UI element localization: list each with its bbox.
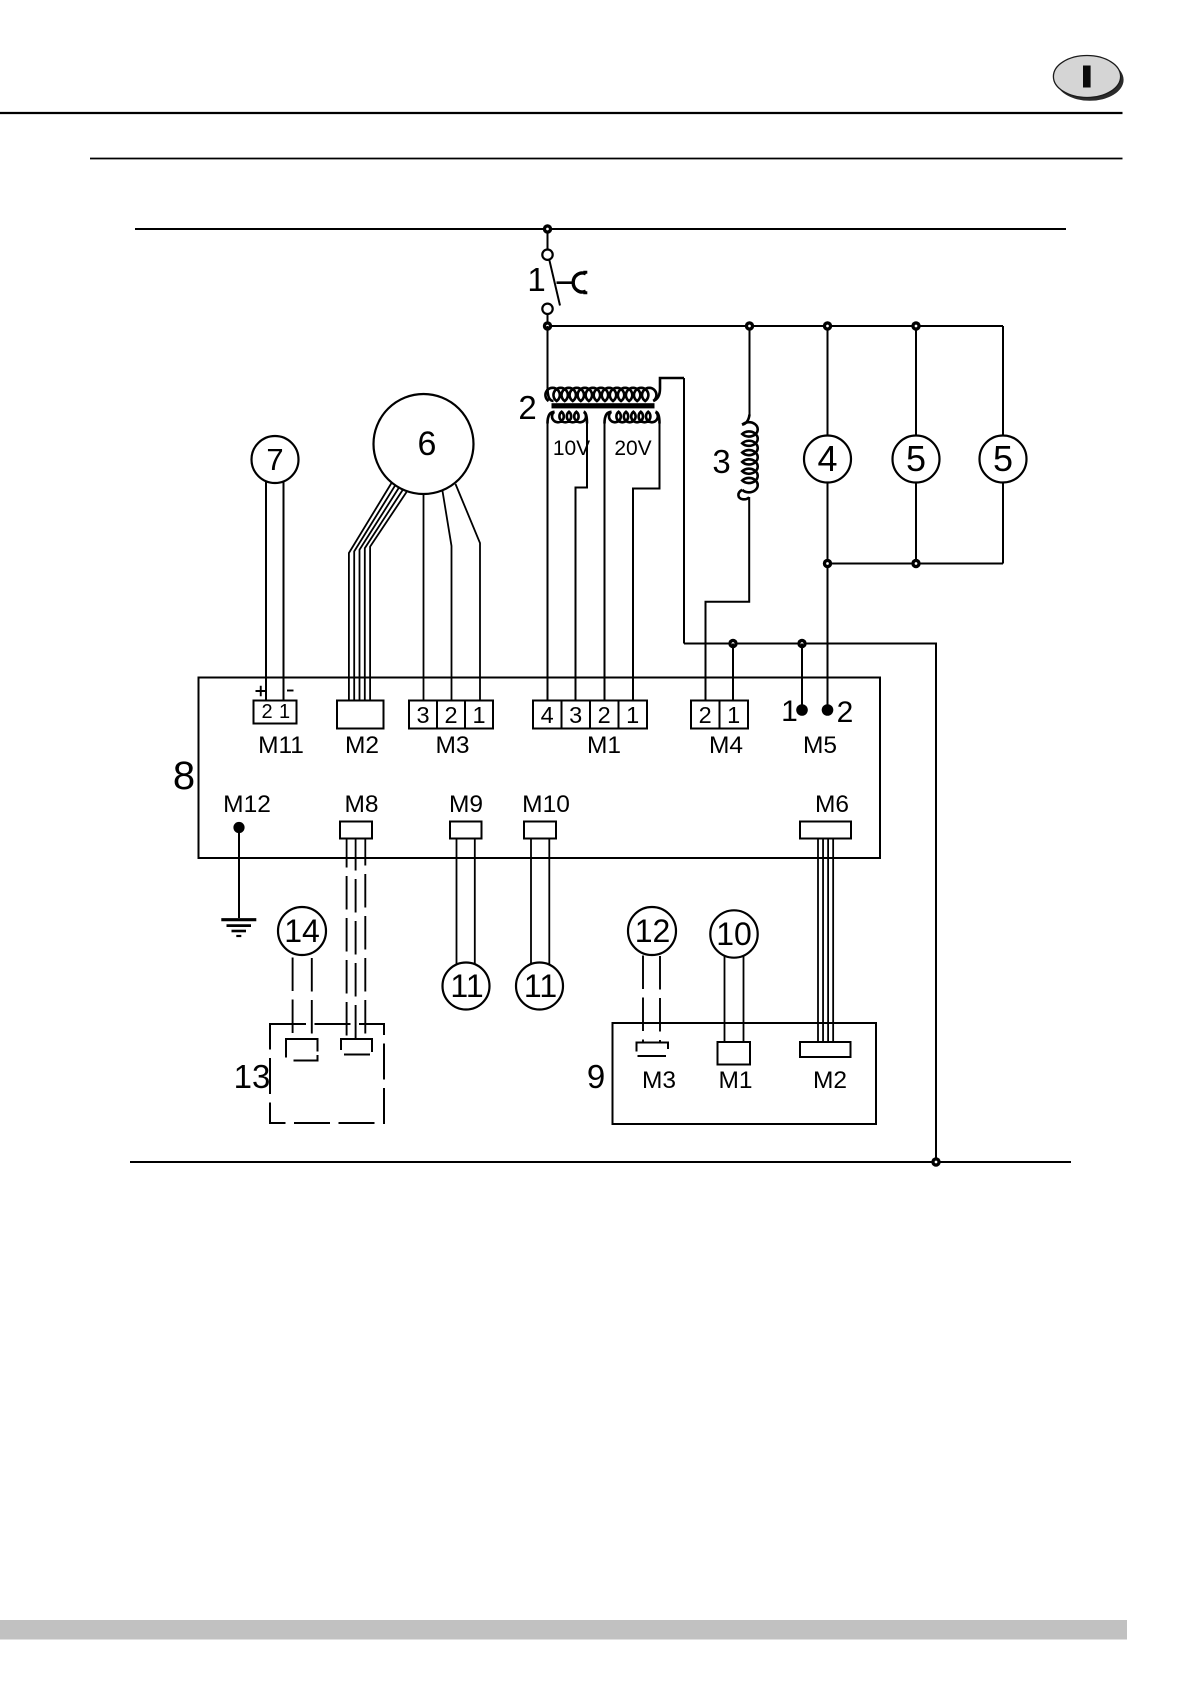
label 1 (switch) [527,263,545,296]
fast-on M5 pin2 [822,704,834,716]
pin 3 (M3) [416,704,429,728]
control board 8 [199,678,881,859]
lamp 5 (first) [893,436,940,483]
connector (box 13 right) [341,1039,372,1055]
node rail-lamp4 [823,321,832,330]
wire: coil 3 to M4 pin2 [706,497,750,701]
wire: motor 6 to M3 pin1 [456,484,481,701]
label M2 [345,734,379,759]
label 2 (transformer) [518,391,536,424]
pin 2 (M1) [598,704,611,728]
node rail-switch bottom [543,321,552,330]
device 10 [710,910,757,957]
label M5 [803,734,837,759]
wire: motor 6 to M3 pin2 [442,488,452,701]
footer gray bar [0,1620,1127,1640]
label 8 (board) [173,756,195,796]
connector M8 [340,822,372,839]
header rule top [0,112,1123,114]
node link-M4 [728,639,737,648]
terminal M4 pins 2 1 [691,701,748,729]
switch 1 (main on/off switch) [542,229,587,326]
wire: lamp4 to bottom bus [827,481,829,564]
connector M9 [450,822,482,839]
label 6 (motor) [418,427,437,461]
pin 1 (M1) [626,704,639,728]
wires: M9 to pump 11 [457,839,475,967]
label 5 (first lamp) [906,441,926,477]
accessory box 13 (dashed) [270,1024,384,1123]
wires: accessory 14 leads (dashed) [293,958,312,1040]
node link-N [931,1157,940,1166]
label 3 (coil) [712,445,730,478]
wire: secondary 20V left to M1 pin2 [604,423,606,701]
wire: rail to coil 3 [749,326,751,416]
pin 4 (M1) [541,704,554,728]
node link-M5 [797,639,806,648]
pin label 1 (M5) [781,697,798,727]
wire: switch to transformer primary [547,326,549,389]
pin label 2 (M5) [837,698,854,728]
wire: switched rail [548,325,1004,327]
node bus-lamp4 [823,559,832,568]
wires: M8 leads (dashed below board) [347,839,366,1040]
wire: bottom neutral rail [130,1161,1071,1163]
terminal M3 pins 3 2 1 [409,701,493,729]
label M2 (panel) [813,1069,847,1094]
pin 1 (M3) [472,704,485,728]
wire: motor 6 to M3 pin3 [423,490,425,701]
wire: M12 to earth [238,828,240,919]
value label 10V [553,438,590,459]
node rail-switch top [543,224,552,233]
label 11 (second pump) [524,970,557,1002]
label M3 (panel) [642,1069,676,1094]
wire: secondary 20V right to M1 pin1 [633,423,660,701]
control panel 9 [613,1023,877,1124]
label M9 [449,793,483,818]
connector M2 (panel 9) [800,1042,851,1057]
label M12 [223,793,271,818]
label 9 (control panel) [587,1060,605,1093]
wire: secondary 10V right to M1 pin3 [576,423,588,701]
label 5 (second lamp) [993,441,1013,477]
label M10 [522,793,570,818]
label 4 (lamp) [817,441,837,477]
sensor 7 [252,436,299,483]
label 10 (device) [716,918,752,950]
wire: device 7 to M11 pin1 [283,470,285,701]
wire: rail to lamp5a [915,326,917,437]
pin 2 (M11) [261,702,272,722]
accessory 14 [278,907,326,955]
pump 11 (first) [443,963,490,1010]
wire: secondary 10V left to M1 pin4 [547,423,549,701]
pin 2 (M3) [444,704,457,728]
label M1 (panel) [718,1069,752,1094]
wires: device 10 leads [725,934,744,1042]
section badge ellipse with I [1053,56,1123,101]
header rule second [90,158,1123,160]
label 12 (sensor) [635,915,671,947]
pump 11 (second) [516,963,563,1010]
fast-on M5 pin1 [796,704,808,716]
terminal M11 [254,701,297,724]
wires: sensor 12 leads (dashed) [643,956,660,1043]
connector M1 (panel 9) [718,1042,751,1065]
polarity - [287,690,294,692]
lamp 4 [804,436,851,483]
transformer 2 [545,378,684,424]
wire: primary return down right side [683,378,685,644]
label 7 (sensor) [266,444,283,475]
pin 2 (M4) [699,704,712,728]
sensor 12 [628,907,676,955]
connector M10 [524,822,556,839]
wire: lamp5b to bottom bus [1002,481,1004,564]
label M8 [344,793,378,818]
connector M2 (board 8) [337,701,384,729]
label 14 (accessory) [284,915,320,947]
pin 1 (M4) [727,704,740,728]
node rail-lamp5a [911,321,920,330]
connector M3 (panel 9, dashed style) [637,1043,669,1057]
wire: link to M5 pin1 [801,644,803,708]
value label 20V [614,438,651,459]
label M6 [815,793,849,818]
wire: top supply rail [135,228,1066,230]
polarity + [256,686,267,697]
node bus-lamp5a [911,559,920,568]
terminal M1 pins 4 3 2 1 [533,701,647,729]
label 11 (first pump) [450,970,483,1002]
wire: device 7 to M11 pin2 [265,470,267,701]
wire: bus to M5 pin2 [827,564,829,708]
wires: motor 6 to connector M2 (5 leads) [349,483,407,701]
pin 3 (M1) [569,704,582,728]
terminal M12 (earth pin) [233,822,244,833]
lamp 5 (second) [980,436,1027,483]
wire: link line to M4/M5 and N rail [684,644,936,1163]
wire: link to M4 pin1 [732,644,734,701]
wire: rail to lamp4 [827,326,829,437]
motor 6 [374,394,474,494]
label M1 [587,734,621,759]
connector M6 [800,822,851,839]
label 13 (accessory box) [234,1060,271,1093]
wires: M10 to pump 11 [531,839,549,967]
label M11 [258,734,304,759]
wires: M6 ribbon to panel M2 [818,839,833,1043]
label M3 [435,734,469,759]
wire: lamp5a to bottom bus [915,481,917,564]
node rail-coil3 [745,321,754,330]
connector (box 13 left) [286,1039,318,1061]
ground (earth symbol) [221,920,256,936]
wire: parallel bus under lamps [828,563,1004,565]
inductor coil 3 [738,415,757,500]
wire: rail to lamp5b [1002,326,1004,437]
pin 1 (M11) [279,702,290,722]
label M4 [709,734,743,759]
